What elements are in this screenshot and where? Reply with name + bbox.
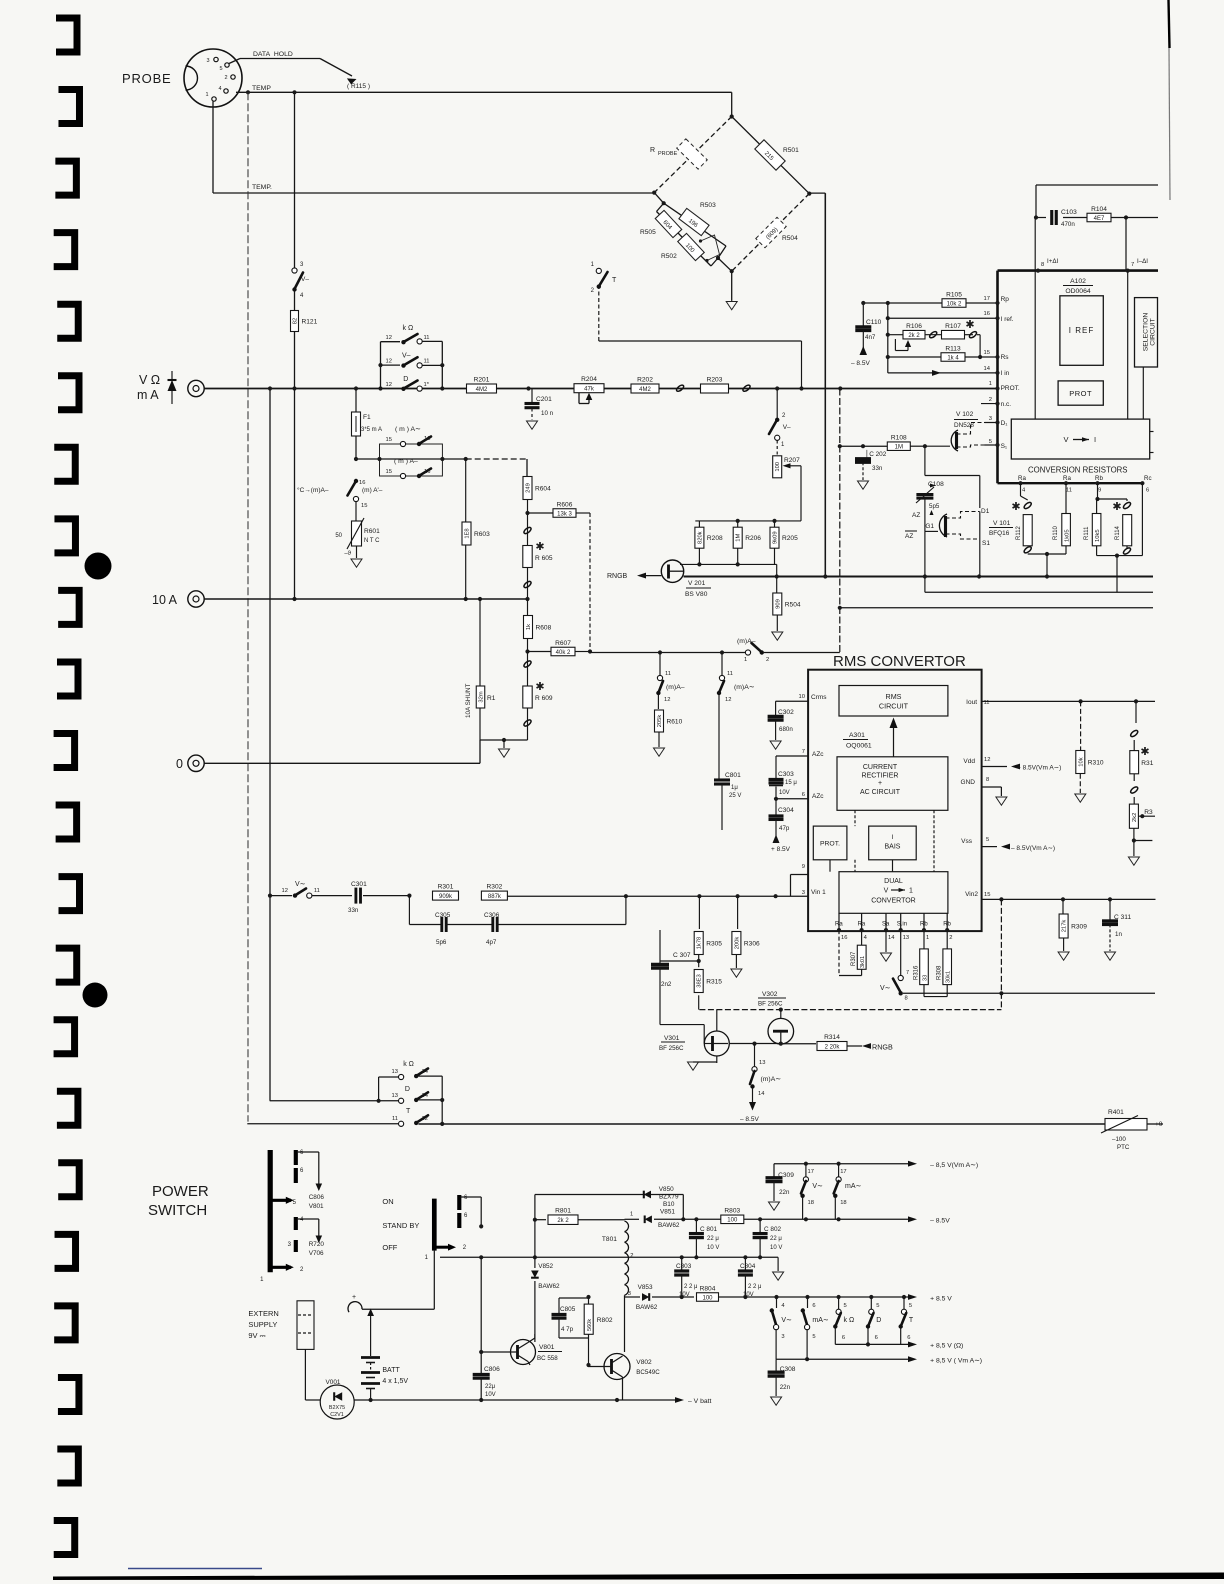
svg-text:C308: C308 (780, 1366, 796, 1373)
block PROT (1058, 381, 1103, 405)
svg-text:R201: R201 (474, 377, 490, 384)
svg-text:R314: R314 (824, 1034, 840, 1041)
wire long bus y1124 (418, 1122, 1105, 1126)
svg-text:– 8.5V(Vm A∼): – 8.5V(Vm A∼) (1011, 845, 1055, 852)
svg-text:C302: C302 (778, 709, 794, 716)
svg-text:6: 6 (802, 792, 805, 798)
pin 12 Vdd (963, 757, 1061, 772)
svg-text:+ 8,5 V ( Vm A∼): + 8,5 V ( Vm A∼) (930, 1358, 982, 1365)
svg-text:+ 8.5V(Vm A∼): + 8.5V(Vm A∼) (1017, 765, 1061, 772)
switch mAdc 11-12 left (656, 653, 685, 710)
wire main bus y388 (204, 386, 998, 390)
svg-text:✱: ✱ (1140, 746, 1149, 758)
svg-text:6: 6 (907, 1335, 910, 1341)
probe connector (184, 49, 242, 107)
terminal V-ohm-mA (137, 373, 204, 402)
diode V850 (644, 1186, 679, 1208)
svg-text:C108: C108 (928, 481, 944, 488)
svg-text:10 n: 10 n (541, 410, 554, 417)
wire x1001 vertical (1000, 899, 1002, 1009)
resistor R606 (528, 501, 591, 517)
svg-text:2: 2 (224, 75, 227, 81)
svg-text:SWITCH: SWITCH (148, 1202, 207, 1219)
svg-text:BAW62: BAW62 (538, 1283, 560, 1290)
svg-text:7: 7 (1131, 262, 1134, 268)
svg-text:13: 13 (903, 935, 909, 941)
wire bridge right to vertical x826 (809, 193, 825, 575)
svg-text:1k: 1k (526, 624, 532, 630)
svg-text:– 8,5 V(Vm A∼): – 8,5 V(Vm A∼) (930, 1162, 978, 1169)
svg-text:T801: T801 (602, 1236, 617, 1243)
capacitor C802 (753, 1219, 783, 1257)
svg-text:Crms: Crms (811, 694, 827, 701)
svg-text:12: 12 (664, 697, 670, 703)
svg-text:C2V1: C2V1 (330, 1412, 344, 1418)
wire top structure C103 R104 (1034, 185, 1158, 271)
resistor R207 with wiper (773, 456, 801, 521)
svg-text:k Ω: k Ω (403, 1061, 414, 1068)
resistor R308 (924, 930, 952, 997)
wire minus85 rail (535, 1216, 950, 1224)
svg-text:I REF: I REF (1069, 326, 1094, 335)
svg-text:C804: C804 (740, 1263, 756, 1270)
svg-text:9k09: 9k09 (773, 531, 779, 544)
switch V~ 17-18 (800, 1164, 823, 1220)
svg-text:V706: V706 (309, 1250, 324, 1257)
svg-text:9V ⎓: 9V ⎓ (248, 1331, 266, 1340)
svg-text:BFQ16: BFQ16 (989, 530, 1010, 537)
switch group kOhm V= D (378, 325, 444, 391)
svg-text:+: + (878, 780, 882, 787)
svg-text:22μ: 22μ (485, 1384, 496, 1390)
wire vertical x590 R606-R607 (589, 513, 591, 652)
svg-text:4 x 1,5V: 4 x 1,5V (382, 1378, 408, 1385)
svg-text:8: 8 (1041, 262, 1044, 268)
resistor R401 PTC (1101, 1109, 1163, 1151)
wire conversion pin row (998, 475, 1152, 494)
svg-text:887k: 887k (488, 894, 502, 900)
svg-text:TEMP: TEMP (252, 85, 271, 92)
switch kOhm 13-14 bottom (379, 1061, 443, 1124)
svg-text:G1: G1 (925, 523, 934, 530)
diode V001 circle (305, 1379, 370, 1419)
svg-text:Rs: Rs (1001, 354, 1010, 361)
svg-text:R504: R504 (782, 235, 798, 242)
svg-text:11: 11 (424, 359, 430, 365)
label POWER SWITCH (148, 1183, 209, 1219)
svg-text:–ϑ: –ϑ (344, 551, 351, 557)
svg-text:Vdd: Vdd (963, 758, 975, 765)
switch ON STANDBY OFF (382, 1195, 483, 1261)
switch V= 3-4 (292, 262, 309, 299)
svg-text:5: 5 (844, 1303, 847, 1309)
resistor R314 (817, 1034, 893, 1052)
block DUAL CONVERTOR (839, 872, 948, 914)
svg-text:Rb: Rb (1095, 475, 1103, 482)
svg-text:1: 1 (926, 935, 929, 941)
svg-text:D₁: D₁ (1001, 420, 1009, 427)
svg-text:Iout: Iout (966, 699, 977, 706)
svg-text:RECTIFIER: RECTIFIER (862, 773, 899, 780)
svg-text:D1: D1 (981, 508, 990, 515)
svg-text:C306: C306 (484, 912, 500, 919)
ground Sa (881, 930, 892, 961)
svg-text:V∼: V∼ (781, 1317, 792, 1324)
bottom page bar (53, 1573, 1224, 1581)
capacitor C806 (473, 1257, 500, 1400)
block BAIS (869, 826, 917, 860)
resistor R108 (887, 442, 910, 451)
block RMS CIRCUIT (839, 686, 948, 717)
svg-text:R3: R3 (1144, 809, 1153, 816)
svg-text:R802: R802 (597, 1317, 613, 1324)
svg-text:R206: R206 (745, 535, 761, 542)
svg-text:F1: F1 (363, 414, 371, 421)
svg-text:k Ω: k Ω (844, 1317, 855, 1324)
resistor R205 (770, 527, 779, 548)
svg-text:BF 256C: BF 256C (659, 1045, 684, 1052)
svg-text:33n: 33n (872, 465, 883, 472)
svg-text:R1: R1 (487, 695, 496, 702)
svg-text:C806: C806 (309, 1194, 325, 1201)
wire vertical x1127 down to VtoI (1127, 271, 1129, 420)
svg-text:A301: A301 (849, 732, 865, 739)
pin 15 Vin2 (965, 891, 1155, 902)
pin 3 Vin1 (802, 889, 826, 896)
svg-text:5: 5 (909, 1303, 912, 1309)
svg-text:V∼: V∼ (812, 1183, 823, 1190)
svg-text:(m)A∼: (m)A∼ (761, 1076, 782, 1083)
svg-text:10: 10 (799, 694, 805, 700)
resistor R301 (433, 891, 459, 900)
svg-text:( m ) A∼: ( m ) A∼ (395, 426, 421, 433)
resistor R202 (631, 384, 659, 393)
wire mA-dc row y652 (590, 650, 746, 654)
capacitor C304 (769, 799, 795, 853)
svg-text:– 8.5V: – 8.5V (930, 1218, 950, 1225)
svg-text:4 7p: 4 7p (561, 1326, 574, 1333)
resistor R201 (467, 384, 497, 393)
wire vertical x294 TEMP to 10A bus (294, 92, 296, 599)
resistor R105 (942, 299, 966, 308)
resistor R608 (524, 599, 552, 654)
diode V851 (630, 1209, 680, 1230)
resistor R604 (523, 477, 551, 516)
wire mA box to R604 (442, 457, 527, 476)
wire bottoms to V201 (680, 548, 777, 575)
svg-text:1E8: 1E8 (465, 528, 471, 538)
svg-text:V001: V001 (326, 1379, 341, 1386)
pin 6 AZc (776, 792, 824, 800)
svg-text:2k 2: 2k 2 (908, 333, 920, 339)
svg-text:Rp: Rp (1001, 296, 1010, 303)
svg-text:R208: R208 (707, 535, 723, 542)
block V to I (1011, 419, 1153, 459)
pin 7 AZc (776, 749, 824, 758)
resistor R110 (1053, 483, 1071, 554)
svg-text:12: 12 (984, 757, 990, 763)
transistor V301 (659, 1010, 729, 1071)
svg-text:R203: R203 (707, 377, 723, 384)
resistor R504 dashed arm (732, 194, 810, 272)
svg-text:✱: ✱ (1011, 501, 1020, 513)
svg-text:2: 2 (630, 1253, 633, 1259)
svg-text:14: 14 (422, 1069, 429, 1075)
resistor R601 NTC (335, 518, 380, 567)
svg-text:17: 17 (808, 1169, 814, 1175)
svg-text:16: 16 (359, 480, 365, 486)
svg-text:470n: 470n (1061, 221, 1075, 228)
resistor R112 (1011, 483, 1032, 554)
svg-text:2 2 μ: 2 2 μ (684, 1284, 698, 1290)
svg-text:BC549C: BC549C (636, 1369, 660, 1376)
svg-text:D: D (403, 376, 408, 383)
svg-text:AZc: AZc (812, 751, 824, 758)
svg-text:10k 2: 10k 2 (947, 301, 962, 307)
svg-text:V 102: V 102 (956, 411, 974, 418)
svg-text:5: 5 (986, 837, 989, 843)
svg-text:10 A: 10 A (152, 593, 178, 607)
svg-text:11: 11 (424, 335, 430, 341)
svg-text:C801: C801 (725, 772, 741, 779)
wire plus85 vma line (776, 1356, 982, 1364)
svg-text:R502: R502 (661, 253, 677, 260)
svg-text:TEMP.: TEMP. (252, 184, 272, 191)
svg-text:10V: 10V (779, 790, 790, 796)
svg-text:I–ΔI: I–ΔI (1137, 258, 1148, 265)
wire pin16 Iref line (886, 311, 1014, 323)
svg-text:909k: 909k (439, 894, 453, 900)
resistor R302 (481, 891, 507, 900)
transistor V201 (661, 560, 711, 598)
svg-text:R608: R608 (536, 624, 552, 631)
svg-text:C201: C201 (536, 396, 552, 403)
wire V301 V302 to R314 (729, 1042, 816, 1046)
svg-text:BC 558: BC 558 (537, 1355, 558, 1362)
svg-text:2: 2 (989, 397, 992, 403)
svg-text:560k: 560k (587, 1319, 593, 1331)
svg-text:14: 14 (888, 935, 895, 941)
resistor R803 (721, 1215, 744, 1224)
svg-text:PROBE: PROBE (122, 71, 172, 86)
svg-text:909: 909 (775, 599, 781, 609)
switch T 1-2 upper (591, 262, 802, 389)
svg-text:2k 2: 2k 2 (557, 1218, 569, 1224)
battery BATT (361, 1309, 408, 1403)
svg-text:R307: R307 (851, 951, 857, 966)
blue rule above bottom bar (128, 1568, 262, 1570)
svg-text:Sa: Sa (882, 922, 890, 928)
svg-text:V301: V301 (664, 1035, 680, 1042)
pin 9 (791, 864, 809, 897)
wire vertical x840 dashdot (838, 389, 842, 653)
svg-text:5: 5 (989, 439, 992, 445)
svg-text:6: 6 (842, 1335, 845, 1341)
svg-text:A102: A102 (1070, 278, 1086, 285)
svg-text:8: 8 (986, 777, 989, 783)
svg-text:3*5 m A: 3*5 m A (361, 427, 382, 433)
svg-text:AZ: AZ (905, 533, 913, 540)
svg-text:14: 14 (422, 1093, 429, 1099)
svg-text:3: 3 (989, 416, 992, 422)
svg-text:1k05: 1k05 (1065, 529, 1071, 542)
svg-text:15: 15 (386, 437, 392, 443)
svg-text:✱: ✱ (965, 319, 974, 331)
svg-text:10k: 10k (1078, 757, 1084, 766)
svg-text:1M: 1M (736, 534, 742, 542)
resistor R203 (701, 384, 729, 393)
bridge left arm inner network (640, 191, 732, 272)
resistor R307 (839, 930, 866, 975)
capacitor C308 (768, 1359, 796, 1405)
resistor R610 (654, 710, 683, 756)
svg-text:CONVERSION RESISTORS: CONVERSION RESISTORS (1028, 466, 1128, 475)
svg-text:Ra: Ra (1018, 475, 1026, 482)
resistor R107 (925, 319, 975, 339)
diode V853 (625, 1284, 695, 1311)
svg-text:R106: R106 (906, 323, 922, 330)
svg-text:2n2: 2n2 (661, 981, 672, 988)
diode at input terminal (168, 371, 177, 404)
capacitor C805 R802 pair (552, 1295, 613, 1367)
transformer T801 (602, 1220, 634, 1340)
resistor R104 (1087, 213, 1111, 222)
svg-text:R720: R720 (309, 1241, 325, 1248)
svg-text:Rb: Rb (943, 922, 951, 928)
svg-text:3: 3 (781, 1334, 784, 1340)
switch mAac 11-12 (717, 653, 755, 781)
svg-text:22n: 22n (779, 1189, 790, 1196)
svg-text:C305: C305 (435, 912, 451, 919)
svg-text:R104: R104 (1091, 206, 1107, 213)
svg-text:n.c.: n.c. (1001, 401, 1012, 408)
capacitor C307 (651, 930, 704, 1025)
wire V850 branch (535, 1195, 686, 1222)
svg-text:( R115 ): ( R115 ) (347, 83, 370, 90)
svg-text:C 802: C 802 (764, 1226, 781, 1233)
resistor R208 (695, 527, 704, 548)
block CURRENT RECTIFIER (837, 757, 948, 811)
svg-text:13: 13 (392, 1093, 398, 1099)
svg-text:15: 15 (361, 503, 367, 509)
trimmer above R605 (523, 513, 532, 546)
svg-text:47p: 47p (779, 825, 790, 832)
wire pin2 nc (981, 397, 1011, 408)
capacitor C309 (766, 1172, 795, 1210)
svg-text:S1: S1 (982, 540, 990, 547)
svg-text:11: 11 (727, 671, 733, 677)
bridge bottom vertex ground (726, 192, 811, 310)
svg-text:100: 100 (775, 462, 781, 472)
svg-text:16: 16 (841, 935, 847, 941)
svg-text:10A SHUNT: 10A SHUNT (465, 684, 472, 718)
resistor R312 trim (1128, 804, 1155, 865)
svg-text:9: 9 (802, 864, 805, 870)
svg-text:Vin2: Vin2 (965, 891, 978, 898)
svg-text:+: + (352, 1294, 356, 1301)
svg-text:N T C: N T C (364, 538, 380, 544)
switch T 11-12 bottom (247, 1108, 428, 1126)
svg-text:R302: R302 (487, 884, 503, 891)
svg-text:⎢C 202: ⎢C 202 (866, 450, 887, 458)
svg-text:(m)A∼: (m)A∼ (734, 684, 755, 691)
svg-text:100: 100 (702, 1295, 713, 1301)
svg-text:12: 12 (282, 888, 288, 894)
svg-text:BS V80: BS V80 (685, 591, 708, 598)
svg-text:PROBE: PROBE (658, 151, 678, 157)
svg-text:( m ) A–: ( m ) A– (394, 458, 418, 465)
svg-text:mA∼: mA∼ (845, 1183, 862, 1190)
svg-text:AZc: AZc (812, 793, 824, 800)
svg-text:V: V (1063, 435, 1068, 444)
svg-text:5: 5 (876, 1303, 879, 1309)
wire battery plus to switch (348, 1251, 434, 1313)
punch hole upper (85, 553, 112, 580)
pin 8 GND (961, 777, 1007, 805)
shunt resistor R1 (465, 599, 496, 740)
wire line3 y608 (840, 607, 1153, 609)
switch V~ 4-3 plus rail (770, 1297, 792, 1359)
svg-text:5: 5 (219, 66, 222, 72)
capacitor C201 (525, 389, 554, 430)
svg-text:217k: 217k (1062, 920, 1068, 933)
svg-text:100: 100 (727, 1218, 738, 1224)
svg-text:R113: R113 (945, 345, 961, 352)
svg-text:3: 3 (628, 1291, 631, 1297)
svg-text:I: I (1094, 435, 1096, 444)
wire probe pin1 down and TEMP lower (213, 102, 654, 194)
svg-text:–100: –100 (1112, 1136, 1126, 1143)
svg-text:T: T (612, 277, 617, 284)
svg-text:R111: R111 (1084, 526, 1090, 540)
svg-text:14: 14 (758, 1091, 765, 1097)
svg-text:mA∼: mA∼ (812, 1317, 829, 1324)
svg-text:R801: R801 (555, 1207, 571, 1214)
svg-text:V853: V853 (638, 1284, 653, 1291)
svg-text:17: 17 (840, 1169, 846, 1175)
svg-text:V851: V851 (660, 1209, 675, 1216)
svg-text:RMS: RMS (886, 692, 902, 701)
svg-text:16: 16 (424, 436, 430, 442)
svg-text:Rb: Rb (920, 922, 928, 928)
svg-text:200k: 200k (734, 937, 740, 950)
switch D 5-6 plus rail (866, 1297, 881, 1347)
svg-text:5: 5 (812, 1334, 815, 1340)
svg-text:PTC: PTC (1117, 1144, 1130, 1151)
svg-text:V 101: V 101 (993, 520, 1011, 527)
switch V= 2-1 mid (769, 389, 791, 456)
svg-text:D: D (876, 1317, 881, 1324)
svg-text:RNGB: RNGB (607, 573, 628, 580)
svg-text:SUPPLY: SUPPLY (248, 1320, 277, 1329)
svg-text:R 609: R 609 (535, 695, 553, 702)
trimmer below R609 (523, 708, 532, 740)
block SELECTION CIRCUIT (1135, 298, 1158, 367)
svg-text:38E3: 38E3 (697, 974, 703, 988)
svg-text:R804: R804 (700, 1285, 716, 1292)
svg-text:PROT.: PROT. (1001, 385, 1020, 392)
svg-text:I+ΔI: I+ΔI (1047, 258, 1058, 265)
svg-text:V802: V802 (636, 1359, 652, 1366)
svg-text:R504: R504 (785, 601, 801, 608)
resistor R605 (523, 541, 553, 568)
pin 5 Vss (961, 837, 1055, 852)
wire pin bus x997 thick (995, 271, 999, 484)
svg-text:(m)A–: (m)A– (666, 684, 685, 691)
svg-text:SELECTION: SELECTION (1143, 313, 1150, 352)
svg-text:RMS CONVERTOR: RMS CONVERTOR (833, 653, 966, 670)
wire bottom rail Vbatt (371, 1397, 712, 1405)
